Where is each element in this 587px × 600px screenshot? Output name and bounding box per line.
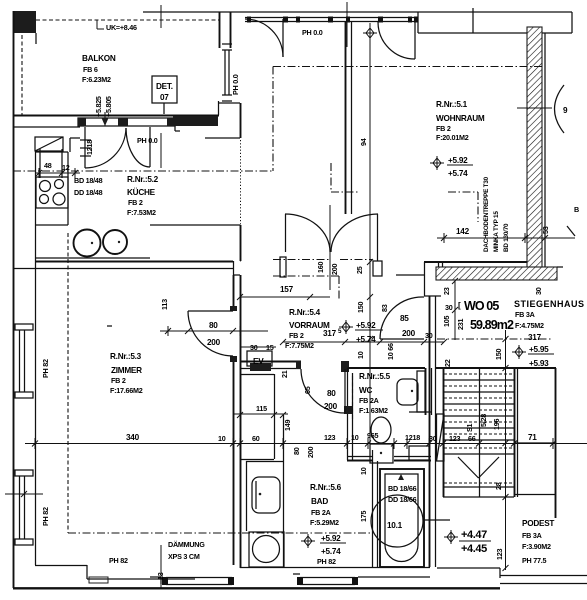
svg-text:80: 80 <box>327 389 336 398</box>
svg-text:80: 80 <box>292 447 301 455</box>
svg-text:PH 0.0: PH 0.0 <box>137 136 158 145</box>
svg-text:83: 83 <box>380 304 389 312</box>
svg-text:PH 82: PH 82 <box>109 556 128 565</box>
svg-text:FB 6: FB 6 <box>83 65 98 74</box>
svg-text:65: 65 <box>303 386 312 394</box>
svg-text:59.89m2: 59.89m2 <box>470 318 514 332</box>
svg-text:F:3.90M2: F:3.90M2 <box>522 542 551 551</box>
svg-text:200: 200 <box>330 264 339 275</box>
svg-text:1218: 1218 <box>85 140 94 155</box>
svg-text:WO 05: WO 05 <box>464 299 499 313</box>
svg-text:R.Nr.:5.3: R.Nr.:5.3 <box>110 352 142 361</box>
svg-text:STIEGENHAUS: STIEGENHAUS <box>514 299 585 309</box>
svg-text:30: 30 <box>425 331 433 340</box>
svg-text:KÜCHE: KÜCHE <box>127 187 156 197</box>
svg-text:+5.95: +5.95 <box>529 345 549 354</box>
svg-text:149: 149 <box>283 420 292 431</box>
svg-text:+5.74: +5.74 <box>448 169 468 178</box>
svg-text:196: 196 <box>492 419 501 430</box>
svg-text:5/28: 5/28 <box>479 414 488 427</box>
svg-text:UK=+8.46: UK=+8.46 <box>106 23 137 32</box>
svg-text:30: 30 <box>445 303 453 312</box>
svg-text:317: 317 <box>528 333 542 342</box>
svg-text:F:1.63M2: F:1.63M2 <box>359 406 388 415</box>
svg-text:FB 2A: FB 2A <box>311 508 331 517</box>
svg-text:R.Nr.:5.2: R.Nr.:5.2 <box>127 175 159 184</box>
svg-text:FB 2: FB 2 <box>436 124 451 133</box>
svg-text:F:17.66M2: F:17.66M2 <box>110 386 143 395</box>
svg-text:200: 200 <box>402 329 416 338</box>
svg-text:123: 123 <box>449 434 460 443</box>
svg-text:F:6.23M2: F:6.23M2 <box>82 75 111 84</box>
svg-text:+5.92: +5.92 <box>356 321 376 330</box>
svg-text:150: 150 <box>356 302 365 313</box>
svg-text:PH 82: PH 82 <box>317 557 336 566</box>
svg-text:123: 123 <box>324 433 335 442</box>
svg-text:53: 53 <box>541 226 550 234</box>
svg-text:F:7.75M2: F:7.75M2 <box>285 341 314 350</box>
svg-text:10: 10 <box>218 434 226 443</box>
svg-text:200: 200 <box>207 338 221 347</box>
svg-text:+5.805: +5.805 <box>104 96 113 117</box>
svg-text:10: 10 <box>356 351 365 359</box>
svg-text:22: 22 <box>443 359 452 367</box>
svg-text:9: 9 <box>563 106 568 115</box>
svg-text:R.Nr.:5.5: R.Nr.:5.5 <box>359 372 391 381</box>
svg-text:WC: WC <box>359 386 372 395</box>
svg-text:10: 10 <box>359 467 368 475</box>
svg-text:115: 115 <box>256 404 267 413</box>
svg-text:10 66: 10 66 <box>386 343 395 360</box>
svg-text:123: 123 <box>495 549 504 560</box>
svg-text:DD 18/48: DD 18/48 <box>74 188 103 197</box>
svg-text:WOHNRAUM: WOHNRAUM <box>436 114 485 123</box>
svg-text:F:4.75M2: F:4.75M2 <box>515 321 544 330</box>
svg-text:BD 130/70: BD 130/70 <box>503 223 510 252</box>
svg-text:231: 231 <box>456 319 465 330</box>
svg-text:200: 200 <box>324 402 338 411</box>
svg-text:XPS 3 CM: XPS 3 CM <box>168 552 200 561</box>
svg-text:+4.47: +4.47 <box>461 529 487 541</box>
svg-text:BD 18/48: BD 18/48 <box>74 176 103 185</box>
svg-text:+5.92: +5.92 <box>321 534 341 543</box>
svg-text:30: 30 <box>250 343 258 352</box>
svg-text:60: 60 <box>252 434 260 443</box>
svg-text:BALKON: BALKON <box>82 54 116 63</box>
svg-text:965: 965 <box>367 431 378 440</box>
svg-text:317: 317 <box>323 329 337 338</box>
svg-text:157: 157 <box>280 285 294 294</box>
svg-text:113: 113 <box>160 299 169 310</box>
svg-text:105: 105 <box>442 316 451 327</box>
svg-text:200: 200 <box>306 447 315 458</box>
svg-text:+5.825: +5.825 <box>94 96 103 117</box>
svg-text:FB 2A: FB 2A <box>359 396 379 405</box>
svg-text:FB 2: FB 2 <box>128 198 143 207</box>
svg-text:30: 30 <box>534 287 543 295</box>
svg-text:80: 80 <box>209 321 218 330</box>
svg-text:ZIMMER: ZIMMER <box>111 366 142 375</box>
svg-text:23: 23 <box>442 287 451 295</box>
svg-text:07: 07 <box>160 93 169 102</box>
svg-text:150: 150 <box>494 349 503 360</box>
svg-text:MINKA TYP 15: MINKA TYP 15 <box>493 211 500 252</box>
svg-text:48: 48 <box>44 161 52 170</box>
svg-text:R.Nr.:5.4: R.Nr.:5.4 <box>289 308 321 317</box>
svg-text:94: 94 <box>359 138 368 146</box>
svg-text:+5.92: +5.92 <box>448 156 468 165</box>
svg-text:R.Nr.:5.6: R.Nr.:5.6 <box>310 483 342 492</box>
svg-text:S1: S1 <box>465 423 474 432</box>
svg-text:FB 3A: FB 3A <box>515 310 535 319</box>
svg-text:25: 25 <box>355 266 364 274</box>
svg-text:EV: EV <box>253 357 264 366</box>
svg-text:B: B <box>574 205 579 214</box>
svg-text:12: 12 <box>62 163 70 172</box>
svg-text:13: 13 <box>156 572 165 580</box>
svg-text:F:7.53M2: F:7.53M2 <box>127 208 156 217</box>
svg-text:FB 3A: FB 3A <box>522 531 542 540</box>
svg-text:+5.74: +5.74 <box>321 547 341 556</box>
svg-text:F:20.01M2: F:20.01M2 <box>436 133 469 142</box>
svg-text:BAD: BAD <box>311 497 328 506</box>
svg-text:21: 21 <box>280 370 289 378</box>
svg-text:PH 0.0: PH 0.0 <box>302 28 323 37</box>
svg-text:15: 15 <box>266 343 274 352</box>
svg-text:PODEST: PODEST <box>522 519 554 528</box>
svg-text:142: 142 <box>456 227 470 236</box>
svg-text:10.1: 10.1 <box>387 521 403 530</box>
svg-text:FB 2: FB 2 <box>111 376 126 385</box>
svg-text:+4.45: +4.45 <box>461 543 487 555</box>
svg-text:R.Nr.:5.1: R.Nr.:5.1 <box>436 100 468 109</box>
svg-text:1218: 1218 <box>405 433 420 442</box>
svg-text:PH 82: PH 82 <box>41 507 50 526</box>
svg-text:PH 77.5: PH 77.5 <box>522 556 546 565</box>
svg-text:DACHBODENTREPPE T30: DACHBODENTREPPE T30 <box>483 176 490 252</box>
svg-text:DET.: DET. <box>156 82 173 91</box>
svg-text:PH 0.0: PH 0.0 <box>231 74 240 95</box>
svg-text:F:5.29M2: F:5.29M2 <box>310 518 339 527</box>
svg-text:175: 175 <box>359 511 368 522</box>
svg-text:FB 2: FB 2 <box>289 331 304 340</box>
svg-text:BD 18/66: BD 18/66 <box>388 484 417 493</box>
svg-text:85: 85 <box>400 314 409 323</box>
svg-text:340: 340 <box>126 433 140 442</box>
svg-text:71: 71 <box>528 433 537 442</box>
svg-text:10: 10 <box>351 433 359 442</box>
svg-text:PH 82: PH 82 <box>41 359 50 378</box>
svg-text:DÄMMUNG: DÄMMUNG <box>168 540 205 549</box>
svg-text:160: 160 <box>316 262 325 273</box>
svg-text:66: 66 <box>468 434 476 443</box>
svg-text:DD 18/66: DD 18/66 <box>388 495 417 504</box>
svg-text:+5.93: +5.93 <box>529 359 549 368</box>
svg-text:28: 28 <box>494 482 503 490</box>
